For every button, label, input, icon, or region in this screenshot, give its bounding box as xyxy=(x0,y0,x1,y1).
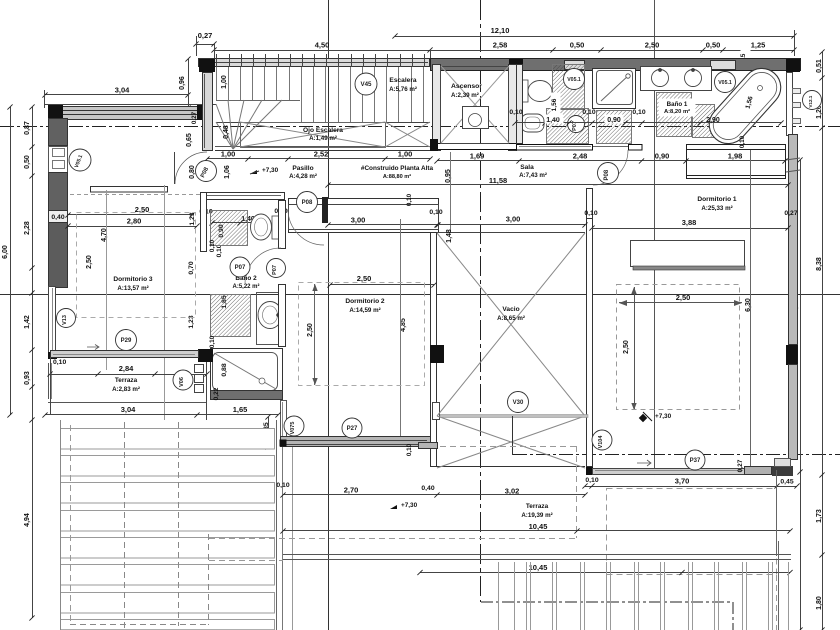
svg-text:11,58: 11,58 xyxy=(489,176,507,185)
svg-text:3,00: 3,00 xyxy=(351,216,366,225)
svg-text:+7,30: +7,30 xyxy=(401,502,418,509)
svg-text:V05.1: V05.1 xyxy=(718,80,732,86)
svg-text:P08: P08 xyxy=(604,169,610,180)
svg-text:Terraza: Terraza xyxy=(526,503,549,510)
svg-text:2,50: 2,50 xyxy=(623,340,630,354)
svg-text:1,00: 1,00 xyxy=(221,75,228,89)
svg-text:0,10: 0,10 xyxy=(209,239,216,252)
svg-text:0,45: 0,45 xyxy=(780,479,793,486)
svg-text:0,10: 0,10 xyxy=(53,359,66,366)
svg-text:1,69: 1,69 xyxy=(470,152,485,161)
svg-text:A:2,83 m²: A:2,83 m² xyxy=(112,386,140,393)
svg-text:2,90: 2,90 xyxy=(706,117,720,124)
svg-text:1,40: 1,40 xyxy=(546,117,560,124)
svg-text:1,73: 1,73 xyxy=(816,509,823,523)
svg-text:#Construido Planta Alta: #Construido Planta Alta xyxy=(361,165,434,172)
svg-text:0,90: 0,90 xyxy=(607,117,621,124)
svg-text:8,38: 8,38 xyxy=(816,257,823,271)
svg-text:2,50: 2,50 xyxy=(307,323,314,337)
svg-text:0,22: 0,22 xyxy=(213,387,220,400)
svg-text:Dormitorio 2: Dormitorio 2 xyxy=(345,298,385,305)
svg-text:V05.1: V05.1 xyxy=(567,77,581,83)
svg-text:+7,30: +7,30 xyxy=(262,167,279,174)
svg-text:P29: P29 xyxy=(121,338,132,344)
svg-text:0,27: 0,27 xyxy=(191,111,198,124)
svg-text:2,58: 2,58 xyxy=(493,41,508,50)
svg-text:A:8,20 m²: A:8,20 m² xyxy=(664,108,690,115)
svg-text:Ascensor: Ascensor xyxy=(451,83,482,90)
svg-text:0,27: 0,27 xyxy=(198,31,213,40)
svg-text:3,04: 3,04 xyxy=(121,405,136,414)
svg-text:1,80: 1,80 xyxy=(816,596,823,610)
svg-text:0,10: 0,10 xyxy=(585,477,598,484)
svg-text:1,25: 1,25 xyxy=(751,41,766,50)
svg-text:2,80: 2,80 xyxy=(127,217,142,226)
svg-text:V13: V13 xyxy=(62,315,68,325)
svg-text:0,10: 0,10 xyxy=(276,482,289,489)
svg-text:V104: V104 xyxy=(598,435,604,449)
svg-text:V12.1: V12.1 xyxy=(808,95,813,107)
svg-text:A:5,76 m²: A:5,76 m² xyxy=(389,86,417,93)
svg-text:3,70: 3,70 xyxy=(675,477,690,486)
svg-text:A:88,80 m²: A:88,80 m² xyxy=(383,173,411,180)
svg-text:1,98: 1,98 xyxy=(728,152,743,161)
svg-text:P08: P08 xyxy=(302,200,313,206)
svg-text:0,50: 0,50 xyxy=(570,41,585,50)
svg-text:0,10: 0,10 xyxy=(739,135,746,148)
svg-text:2,84: 2,84 xyxy=(119,364,134,373)
svg-text:0,65: 0,65 xyxy=(186,133,193,147)
svg-text:V06: V06 xyxy=(179,377,185,387)
svg-text:A:14,59 m²: A:14,59 m² xyxy=(349,307,380,314)
svg-text:10,45: 10,45 xyxy=(529,563,548,572)
svg-text:2,50: 2,50 xyxy=(357,274,372,283)
svg-text:P07: P07 xyxy=(272,265,278,275)
svg-text:12,10: 12,10 xyxy=(491,26,510,35)
svg-text:Escalera: Escalera xyxy=(389,77,416,84)
svg-text:4,85: 4,85 xyxy=(400,318,407,332)
svg-text:0,51: 0,51 xyxy=(816,59,823,73)
svg-text:Terraza: Terraza xyxy=(115,377,138,384)
svg-text:0,50: 0,50 xyxy=(24,155,31,169)
svg-text:A:5,22 m²: A:5,22 m² xyxy=(232,283,259,290)
svg-text:2,50: 2,50 xyxy=(645,41,660,50)
svg-text:0,40: 0,40 xyxy=(51,214,64,221)
svg-text:2,52: 2,52 xyxy=(314,150,329,159)
svg-text:3,02: 3,02 xyxy=(505,487,520,496)
svg-text:A:8,65 m²: A:8,65 m² xyxy=(497,315,525,322)
svg-text:0,48: 0,48 xyxy=(223,125,230,139)
svg-text:1,56: 1,56 xyxy=(551,98,558,111)
svg-text:0,27: 0,27 xyxy=(784,210,797,217)
svg-text:V45: V45 xyxy=(360,81,372,88)
svg-text:2,48: 2,48 xyxy=(573,152,588,161)
svg-text:Ojo Escalera: Ojo Escalera xyxy=(303,127,343,134)
svg-text:1,06: 1,06 xyxy=(224,165,231,179)
svg-text:A:7,43 m²: A:7,43 m² xyxy=(519,172,547,179)
svg-text:0,10: 0,10 xyxy=(216,244,223,257)
svg-text:0,40: 0,40 xyxy=(421,485,434,492)
svg-text:A:2,39 m²: A:2,39 m² xyxy=(451,92,479,99)
svg-text:0,10: 0,10 xyxy=(209,335,216,348)
svg-text:0,10: 0,10 xyxy=(406,193,413,206)
svg-text:0,10: 0,10 xyxy=(509,109,522,116)
svg-text:0,27: 0,27 xyxy=(737,459,744,472)
svg-text:1,00: 1,00 xyxy=(398,150,413,159)
svg-text:0,87: 0,87 xyxy=(24,121,31,135)
svg-text:Baño 1: Baño 1 xyxy=(667,101,688,108)
svg-text:P07: P07 xyxy=(235,265,246,271)
svg-text:Pasillo: Pasillo xyxy=(292,165,313,172)
svg-text:1,00: 1,00 xyxy=(221,150,236,159)
svg-text:10,45: 10,45 xyxy=(529,522,548,531)
svg-text:+7,30: +7,30 xyxy=(655,413,672,420)
svg-text:A:4,28 m²: A:4,28 m² xyxy=(289,173,317,180)
svg-text:A:13,57 m²: A:13,57 m² xyxy=(117,285,148,292)
svg-text:0,70: 0,70 xyxy=(188,261,195,274)
svg-text:4,94: 4,94 xyxy=(24,513,31,527)
svg-text:2,50: 2,50 xyxy=(86,255,93,269)
svg-text:P27: P27 xyxy=(347,426,358,432)
svg-text:0,93: 0,93 xyxy=(24,371,31,385)
svg-text:V075: V075 xyxy=(290,422,296,435)
svg-text:2,28: 2,28 xyxy=(24,221,31,235)
svg-text:0,10: 0,10 xyxy=(429,209,442,216)
svg-text:A:19,39 m²: A:19,39 m² xyxy=(521,512,552,519)
svg-text:1,23: 1,23 xyxy=(189,212,196,225)
svg-text:0,96: 0,96 xyxy=(179,76,186,90)
svg-text:0,88: 0,88 xyxy=(221,363,228,376)
svg-text:A:1,49 m²: A:1,49 m² xyxy=(309,135,337,142)
svg-text:0,10: 0,10 xyxy=(632,109,645,116)
svg-text:0,10: 0,10 xyxy=(406,443,413,456)
svg-text:P37: P37 xyxy=(690,458,701,464)
svg-text:2,70: 2,70 xyxy=(344,486,359,495)
svg-text:A:25,33 m²: A:25,33 m² xyxy=(701,205,732,212)
svg-text:0,10: 0,10 xyxy=(582,109,595,116)
svg-text:0,90: 0,90 xyxy=(655,152,670,161)
svg-text:6,00: 6,00 xyxy=(2,245,9,259)
svg-text:1,48: 1,48 xyxy=(446,229,453,243)
svg-text:0,50: 0,50 xyxy=(706,41,721,50)
svg-text:V30: V30 xyxy=(513,400,524,406)
svg-text:3,00: 3,00 xyxy=(506,215,521,224)
svg-text:2,50: 2,50 xyxy=(676,293,691,302)
svg-text:0,80: 0,80 xyxy=(189,165,196,179)
svg-text:Sala: Sala xyxy=(520,164,534,171)
svg-text:Dormitorio 1: Dormitorio 1 xyxy=(697,196,737,203)
svg-text:Dormitorio 3: Dormitorio 3 xyxy=(113,276,153,283)
svg-text:1,42: 1,42 xyxy=(24,315,31,329)
svg-text:3,04: 3,04 xyxy=(115,86,130,95)
svg-text:3,88: 3,88 xyxy=(682,218,697,227)
svg-text:4,50: 4,50 xyxy=(315,41,330,50)
svg-text:0,10: 0,10 xyxy=(584,210,597,217)
svg-text:1,65: 1,65 xyxy=(233,405,248,414)
svg-text:Vacio: Vacio xyxy=(502,306,519,313)
